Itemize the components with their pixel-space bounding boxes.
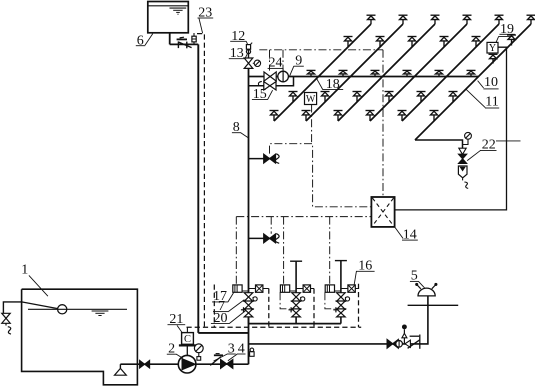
station 3 drop to manifold — [340, 317, 342, 324]
station 2 flow indicator box — [280, 285, 296, 292]
pump discharge pipe — [196, 363, 249, 365]
station 1 signal box — [249, 285, 263, 292]
label 23 — [198, 6, 214, 21]
air vent 12 on riser top — [246, 43, 252, 50]
drain valve 2 — [264, 234, 276, 243]
label 13 leader — [245, 54, 247, 58]
sprinkler row2 branch 3 — [408, 37, 417, 48]
suction valve — [140, 360, 150, 368]
sprinkler on main branch 6 — [467, 70, 476, 77]
sprinkler row3 branch 3 — [353, 92, 362, 103]
station 1 flow indicator box — [233, 285, 249, 292]
label 8 — [232, 120, 241, 135]
test valve 22 — [459, 154, 467, 163]
label 15 — [252, 87, 268, 102]
sprinkler row4 branch 6 — [430, 111, 439, 122]
controller link to pump — [186, 347, 188, 356]
label 19 — [499, 22, 515, 37]
sprinkler row4 branch 4 — [366, 111, 375, 122]
station 1 valve 2 — [244, 301, 253, 309]
station 2 standpipe — [290, 261, 302, 293]
pump 2 — [178, 355, 196, 373]
branch line 2 (diagonal) — [306, 24, 403, 121]
branch line 4 (diagonal) — [370, 24, 467, 121]
sprinkler on main branch 2 — [339, 70, 348, 77]
tank 1 level mark — [92, 311, 109, 316]
stations enclosure dashed vertical d — [358, 284, 360, 328]
sprinkler row4 branch 1 — [270, 111, 279, 122]
svg-text:W: W — [306, 94, 316, 105]
suction strainer — [115, 364, 127, 375]
float ball — [58, 305, 67, 314]
ground line at hydrant — [408, 304, 459, 306]
station manifold pipe — [249, 323, 341, 325]
label 2 — [167, 341, 177, 356]
label 5 — [410, 269, 419, 284]
svg-text:C: C — [184, 334, 191, 345]
sprinkler top row branch 4 — [463, 15, 472, 24]
stations enclosure dashed vertical c — [313, 289, 315, 328]
zone signal line to control box (dash-dot) — [382, 50, 384, 197]
control box 14 — [371, 197, 394, 227]
sprinkler row3 branch 4 — [385, 92, 394, 103]
label 18 leader — [316, 78, 322, 89]
label 14 leader — [395, 227, 404, 239]
label 9 — [294, 54, 304, 69]
branch line 3 (diagonal) — [338, 24, 435, 121]
test outlet squiggle — [463, 178, 469, 188]
tank B6 outlet pipe to riser — [170, 43, 199, 45]
station 2 valve 3 — [292, 309, 301, 317]
label 10 — [483, 75, 498, 90]
sprinkler row4 branch 2 — [302, 111, 311, 122]
label 17 leader — [228, 293, 234, 302]
suction pipe — [120, 363, 178, 365]
station 3 gauge — [345, 297, 349, 301]
check valve on tank B6 outlet — [177, 37, 192, 48]
pressure gauge at riser top — [253, 60, 261, 66]
sprinkler top row branch 2 — [399, 15, 408, 24]
sprinkler on main branch 1 — [307, 70, 316, 77]
station 2 alarm valve — [292, 293, 301, 302]
sprinkler row4 branch 3 — [334, 111, 343, 122]
signal drop from W box — [311, 105, 313, 144]
station 3 flow indicator box — [325, 285, 341, 292]
sprinkler on main branch 3 — [371, 70, 380, 77]
label 1 — [21, 262, 28, 277]
controller base plate — [179, 344, 196, 346]
drain 1 outlet squiggle — [275, 154, 279, 164]
label 17 — [212, 289, 228, 304]
sprinkler row4 branch 5 — [398, 111, 407, 122]
station 2 valve 2 — [292, 301, 301, 309]
drain 2 outlet squiggle — [275, 234, 279, 244]
union mark on bypass — [258, 81, 261, 86]
main line after meter — [288, 76, 478, 78]
signal line box14 to Y indicator — [395, 47, 507, 210]
signal drop to station 1 indicator — [235, 217, 237, 285]
sprinkler top row branch 3 — [431, 15, 440, 24]
main feed line 9 start — [249, 76, 265, 78]
check valve 3 — [210, 354, 223, 366]
label 12 leader — [246, 41, 248, 45]
stations enclosure dashed vertical b — [268, 289, 270, 328]
label 15 leader — [268, 90, 273, 99]
sprinkler row2 branch 1 — [344, 37, 353, 48]
sprinkler row3 branch 2 — [321, 92, 330, 103]
station 1 handwheel cross — [241, 307, 246, 312]
station 3 alarm valve — [337, 293, 346, 302]
label 24 leader — [282, 68, 284, 71]
label 7 — [213, 299, 229, 314]
label 22 shelf line — [496, 140, 521, 142]
branch line 5 (diagonal) — [402, 24, 499, 121]
label 16 leader — [354, 271, 356, 285]
station 1 gauge — [253, 297, 257, 301]
label 18 — [323, 77, 344, 92]
svg-text:11: 11 — [485, 94, 498, 109]
feed pipe bottom run to riser — [198, 332, 248, 334]
label 10 leader — [478, 81, 484, 88]
signal bus to stations (dash-dot) — [236, 216, 371, 218]
sprinkler row2 branch 5 — [472, 37, 481, 48]
riser 8 (main supply riser) — [248, 68, 250, 364]
station 2 handwheel cross — [289, 307, 294, 312]
tank B6 (upper pressure tank) — [148, 2, 189, 33]
label 5 leader — [419, 281, 425, 287]
pressure switch on riser — [249, 348, 255, 356]
label 22 — [480, 137, 496, 152]
station 1 valve 3 — [244, 309, 253, 317]
sprinkler top row branch 1 — [367, 15, 376, 24]
branch line 6 (diagonal) — [415, 24, 531, 140]
pressure relief pilot — [402, 325, 407, 344]
label 9 leader — [290, 66, 294, 76]
signal bus above meter (dash-dot) — [259, 49, 383, 51]
tank 1 water line — [28, 308, 127, 310]
sprinkler row3 branch 5 — [417, 92, 426, 103]
label 3 leader — [214, 354, 228, 361]
station 1 signal link right (dashed) — [263, 288, 269, 290]
device 23 (level signal unit on tank outlet) — [192, 33, 196, 44]
station 3 standpipe — [335, 261, 347, 293]
bypass line with valve 15 — [249, 77, 294, 86]
label 14 — [402, 227, 418, 242]
signal drop to meter 24 — [282, 50, 284, 70]
fire hydrant 5 — [416, 283, 437, 296]
tank B6 inner top line — [148, 5, 189, 7]
orifice meter on hydrant line — [396, 340, 403, 347]
station 3 actuator signal link (dash-dot) — [325, 292, 334, 309]
svg-text:1: 1 — [21, 262, 28, 277]
label 16 — [356, 258, 375, 273]
signal drop to station 3 indicator — [329, 217, 331, 284]
label 11 — [485, 94, 499, 109]
drain valve 1 — [264, 154, 276, 163]
inlet shut-off valve — [2, 313, 10, 323]
station 2 drop to manifold — [295, 317, 297, 324]
svg-text:Y: Y — [489, 43, 496, 54]
signal drop to station 2 indicator — [283, 217, 285, 285]
sprinkler row3 branch 6 — [449, 92, 458, 103]
control box 14 crossed diagonals — [372, 198, 393, 226]
station 1 alarm valve — [244, 293, 253, 302]
station 2 signal link right (dashed) — [311, 288, 315, 290]
signal drop to gate valve — [269, 50, 271, 71]
branch line 1 (diagonal) — [274, 24, 371, 121]
label 19 leader — [496, 37, 513, 43]
sprinkler top row branch 6 — [527, 15, 535, 24]
check valve on hydrant line — [405, 335, 420, 349]
svg-text:10: 10 — [484, 75, 498, 90]
label 12 — [230, 29, 246, 44]
stations enclosure dashed vertical a — [213, 285, 215, 328]
gate valve before meter — [264, 72, 276, 81]
label 4 leader — [228, 354, 237, 361]
sprinkler row2 branch 4 — [440, 37, 449, 48]
station 3 handwheel cross — [333, 307, 338, 312]
end test pipe from branch 6 — [415, 140, 463, 148]
drain line 2 on riser — [249, 237, 277, 239]
label 20 — [211, 311, 230, 326]
gauge on test pipe — [463, 132, 472, 144]
label 6 — [136, 33, 145, 48]
station 3 valve 3 — [337, 309, 346, 317]
label 23 leader — [199, 18, 203, 33]
signal bus to pump controller (dashed) — [187, 326, 362, 328]
station 2 signal box — [296, 285, 310, 292]
sprinkler row3 branch 1 — [289, 92, 298, 103]
label 8 leader — [240, 133, 248, 138]
water meter 24 — [276, 71, 288, 82]
valve 15 on bypass — [264, 82, 276, 90]
label 21 leader — [177, 325, 183, 333]
shut-off valve on riser top — [244, 58, 253, 68]
sprinkler row2 branch 6 — [507, 35, 516, 46]
signal drop to drain valve 2 — [270, 217, 272, 234]
label 4 — [237, 341, 246, 356]
inlet squiggle (from network) — [6, 323, 11, 334]
label 20 leader — [230, 311, 246, 324]
label 22 leader — [467, 150, 481, 160]
station 2 actuator signal link (dash-dot) — [280, 292, 289, 309]
sprinkler under flow indicator Y — [489, 54, 498, 63]
flow indicator Y box — [487, 42, 498, 54]
label 13 — [229, 46, 245, 61]
station 2 gauge — [300, 297, 304, 301]
flow indicator W box — [305, 93, 317, 105]
test valve 22 top cone — [459, 148, 466, 154]
sprinkler top row branch 5 — [495, 15, 504, 24]
station 1 drop to manifold — [248, 317, 250, 324]
pump pressure gauge — [194, 344, 203, 360]
pump controller C box — [182, 333, 194, 345]
sprinkler on main branch 4 — [403, 70, 412, 77]
gate valve 4 — [221, 360, 233, 369]
station 3 signal box — [341, 285, 355, 292]
device 13 (small float) — [246, 50, 250, 54]
label 3 — [227, 341, 236, 356]
station 3 valve 2 — [337, 301, 346, 309]
tank B6 outlet pipe down — [169, 33, 171, 45]
label 2 leader — [176, 354, 182, 358]
test nozzle body — [458, 166, 467, 178]
tank 1 inlet pipe — [3, 302, 21, 313]
label 1 leader — [29, 275, 48, 296]
riser top stub — [248, 49, 250, 58]
gate valve on hydrant line — [387, 340, 398, 349]
tank B6 water level mark — [170, 8, 187, 14]
outlet pipe to hydrant — [249, 296, 428, 344]
sprinkler row2 branch 2 — [376, 37, 385, 48]
label 6 leader — [145, 34, 153, 46]
label 24 — [268, 56, 284, 71]
dashed drop into controller C — [186, 327, 188, 332]
station 3 signal link right (dashed) — [355, 288, 358, 290]
label 21 — [168, 312, 186, 327]
tank 1 (storage reservoir) — [22, 289, 138, 385]
signal line 23 (dashed) from tank to controller — [197, 34, 204, 328]
label 7 leader — [229, 300, 245, 312]
signal line from drain valve 1 (dash-dot) — [270, 144, 372, 207]
drain line 1 on riser — [249, 158, 277, 160]
label 11 leader — [466, 89, 485, 107]
float valve arm — [22, 302, 58, 309]
sprinkler on main branch 5 — [435, 70, 444, 77]
feed pipe from tank B6 down to pump node — [197, 44, 199, 333]
